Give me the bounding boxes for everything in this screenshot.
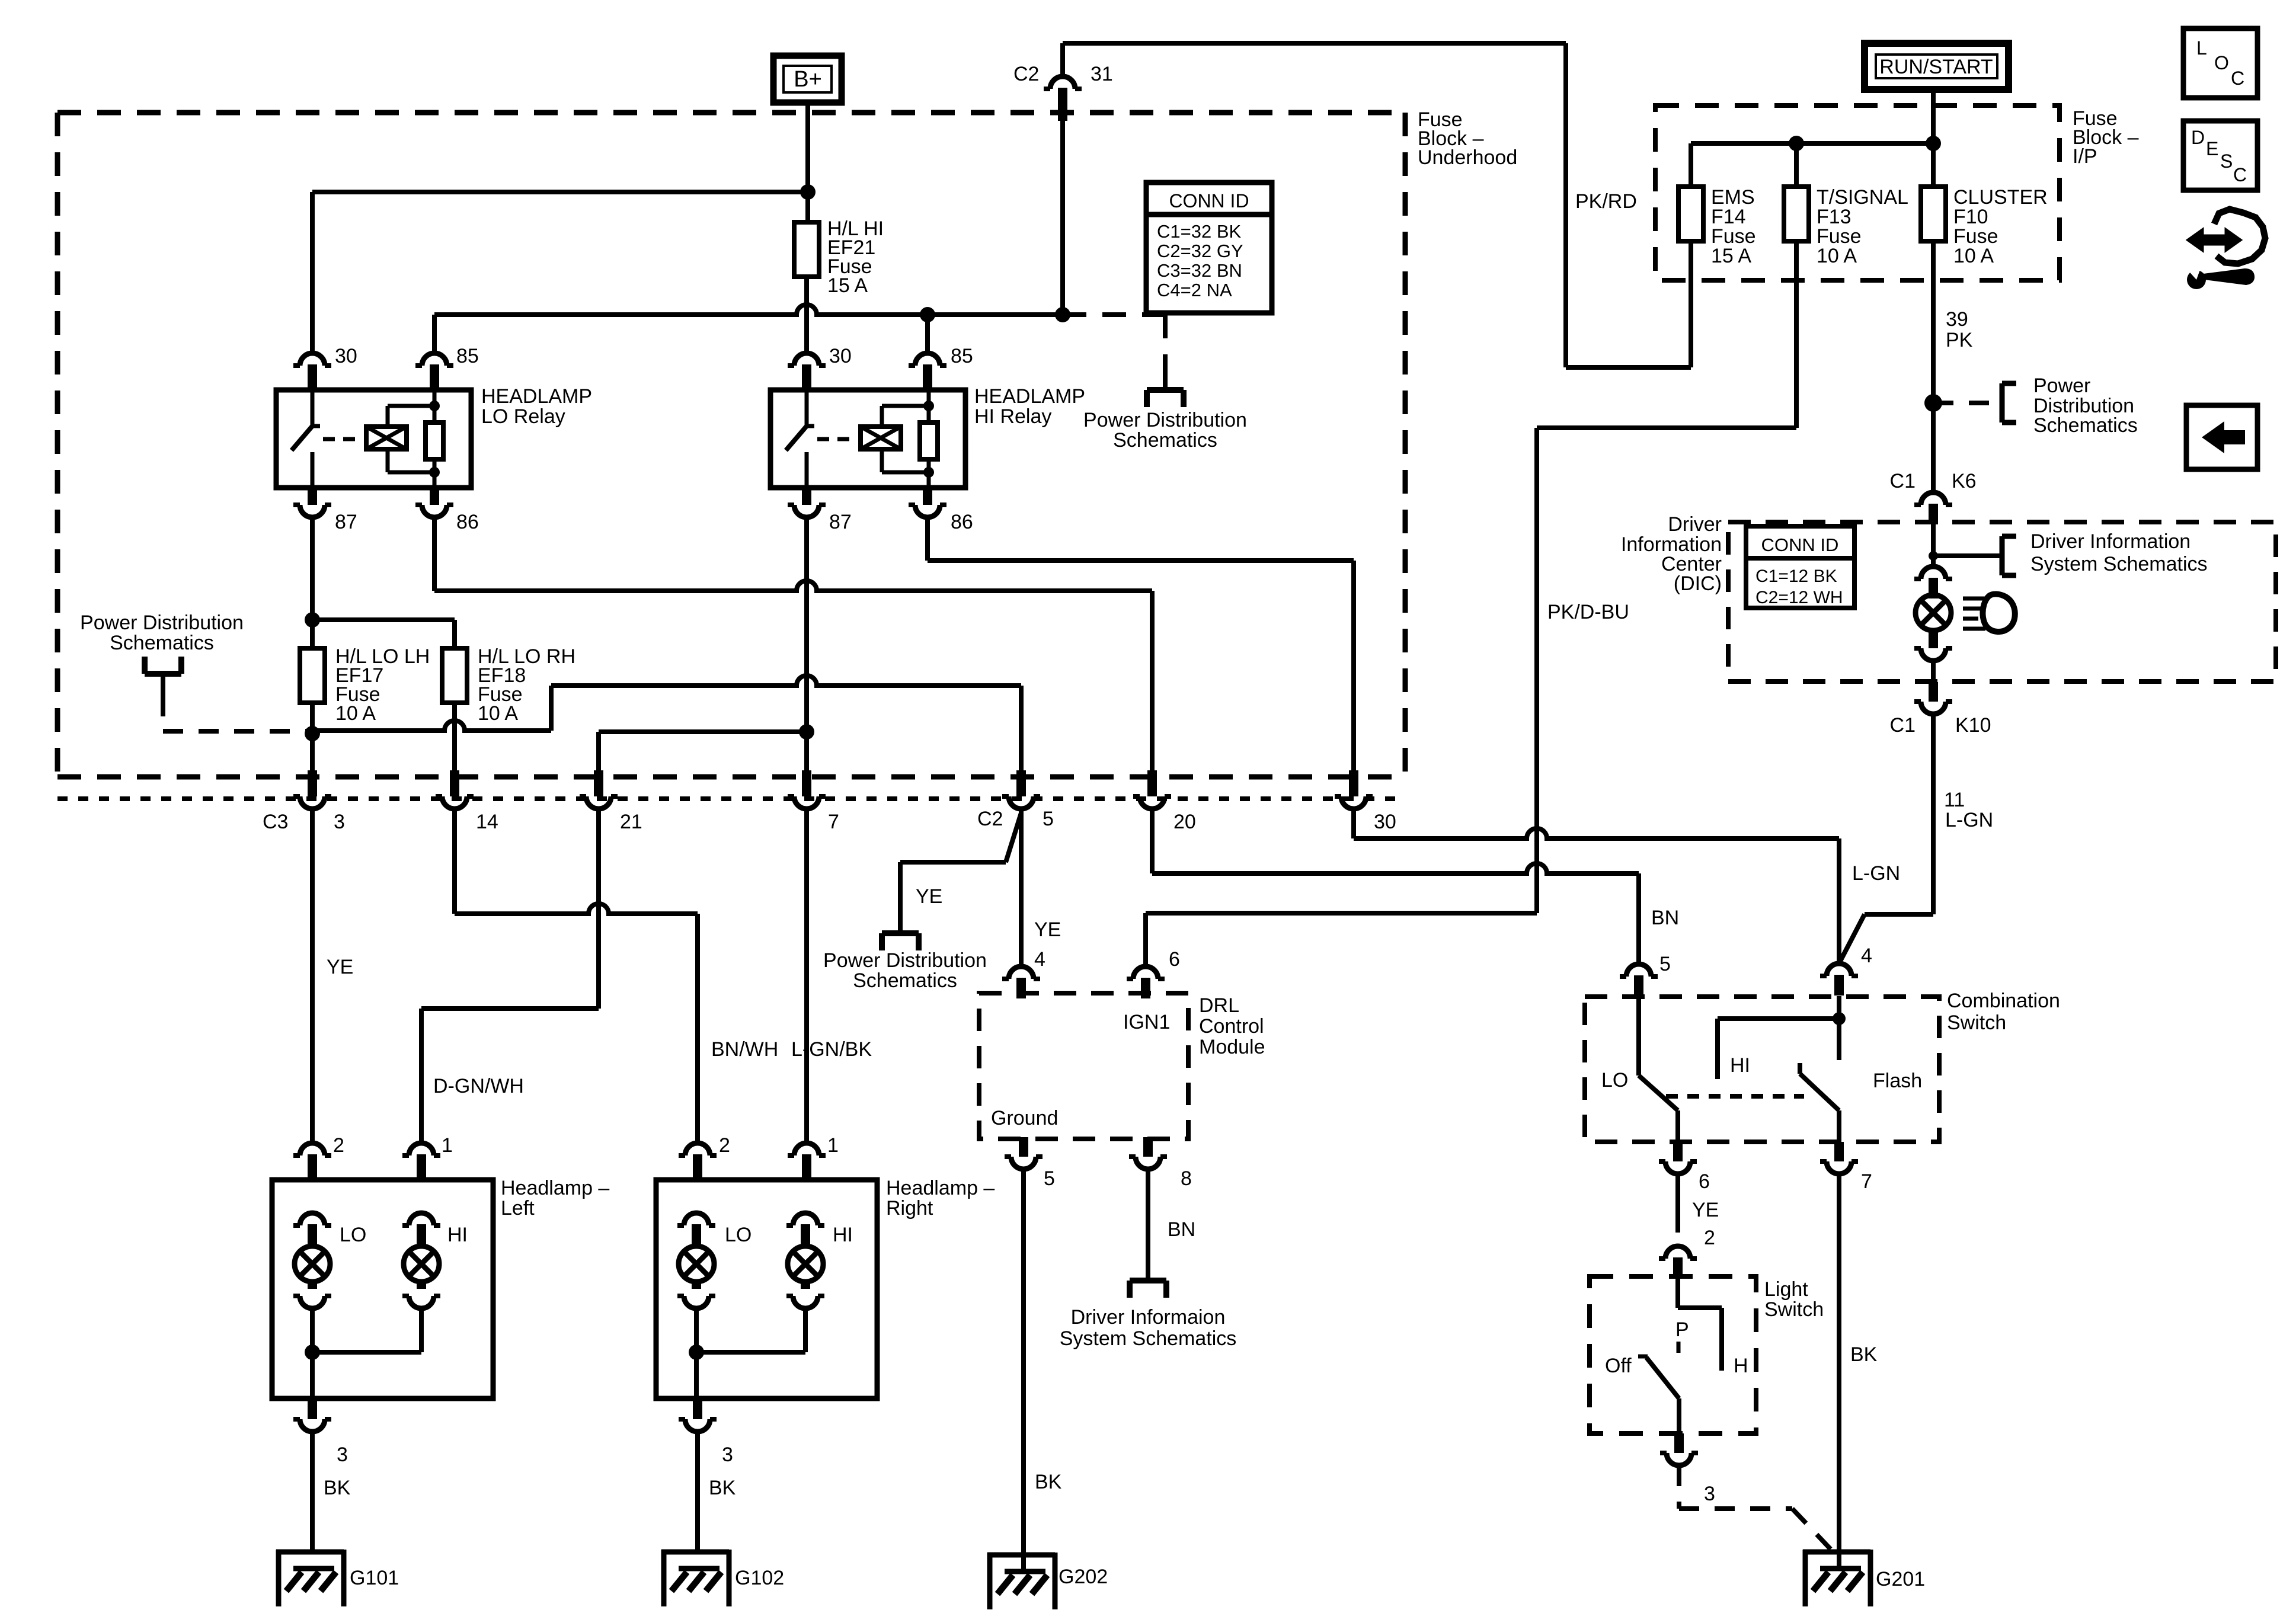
svg-text:30: 30 xyxy=(829,345,852,367)
svg-text:5: 5 xyxy=(1043,808,1054,830)
svg-text:LO Relay: LO Relay xyxy=(481,405,565,428)
svg-text:39: 39 xyxy=(1946,308,1968,331)
svg-text:2: 2 xyxy=(719,1134,730,1157)
svg-text:1: 1 xyxy=(442,1134,453,1157)
svg-text:LO: LO xyxy=(340,1224,366,1246)
svg-text:D-GN/WH: D-GN/WH xyxy=(433,1075,524,1097)
svg-text:Power Distribution: Power Distribution xyxy=(823,949,987,972)
svg-text:6: 6 xyxy=(1699,1170,1710,1193)
svg-text:3: 3 xyxy=(722,1443,733,1466)
svg-text:C4=2 NA: C4=2 NA xyxy=(1157,280,1232,300)
svg-text:Ground: Ground xyxy=(991,1107,1058,1129)
svg-text:C2: C2 xyxy=(977,808,1003,830)
svg-text:DRL: DRL xyxy=(1199,994,1239,1017)
svg-text:85: 85 xyxy=(456,345,479,367)
svg-text:Schematics: Schematics xyxy=(110,632,214,654)
svg-text:Module: Module xyxy=(1199,1036,1265,1058)
svg-text:7: 7 xyxy=(828,811,839,833)
svg-text:K6: K6 xyxy=(1952,470,1977,492)
svg-text:C2=32 GY: C2=32 GY xyxy=(1157,241,1243,261)
svg-text:15 A: 15 A xyxy=(1711,245,1751,267)
svg-text:BN/WH: BN/WH xyxy=(711,1038,778,1061)
svg-text:L-GN: L-GN xyxy=(1945,809,1993,831)
svg-text:Schematics: Schematics xyxy=(1113,429,1217,452)
svg-text:5: 5 xyxy=(1044,1167,1055,1190)
svg-text:IGN1: IGN1 xyxy=(1123,1011,1170,1033)
svg-text:Power Distribution: Power Distribution xyxy=(80,612,244,634)
svg-text:BN: BN xyxy=(1168,1218,1195,1241)
svg-text:31: 31 xyxy=(1091,63,1113,85)
svg-text:HEADLAMP: HEADLAMP xyxy=(974,385,1085,408)
svg-text:System Schematics: System Schematics xyxy=(2030,553,2208,575)
svg-text:Driver: Driver xyxy=(1668,513,1722,536)
svg-text:HI: HI xyxy=(447,1224,468,1246)
svg-text:15 A: 15 A xyxy=(827,274,868,297)
svg-text:YE: YE xyxy=(327,956,353,978)
svg-text:20: 20 xyxy=(1173,811,1196,833)
svg-text:Combination: Combination xyxy=(1947,990,2060,1012)
svg-text:S: S xyxy=(2220,151,2233,172)
svg-text:Headlamp –: Headlamp – xyxy=(501,1177,609,1199)
svg-text:G102: G102 xyxy=(735,1567,784,1589)
svg-text:10 A: 10 A xyxy=(1953,245,1994,267)
svg-text:(DIC): (DIC) xyxy=(1674,572,1722,595)
svg-text:B+: B+ xyxy=(794,67,822,92)
svg-text:Headlamp –: Headlamp – xyxy=(886,1177,994,1199)
svg-text:C1=12 BK: C1=12 BK xyxy=(1755,566,1837,586)
svg-text:P: P xyxy=(1675,1318,1689,1341)
svg-text:1: 1 xyxy=(827,1134,839,1157)
svg-text:H: H xyxy=(1734,1355,1748,1377)
svg-text:21: 21 xyxy=(620,811,642,833)
svg-text:Left: Left xyxy=(501,1197,535,1219)
svg-text:C3: C3 xyxy=(263,811,288,833)
svg-text:HI: HI xyxy=(833,1224,853,1246)
svg-text:G101: G101 xyxy=(350,1567,399,1589)
svg-text:Switch: Switch xyxy=(1947,1012,2006,1034)
svg-text:G201: G201 xyxy=(1876,1568,1925,1590)
svg-text:10 A: 10 A xyxy=(1817,245,1857,267)
svg-text:30: 30 xyxy=(1374,811,1396,833)
svg-text:CONN ID: CONN ID xyxy=(1169,190,1249,212)
svg-text:C2=12 WH: C2=12 WH xyxy=(1755,588,1843,607)
svg-text:Schematics: Schematics xyxy=(2033,414,2138,437)
svg-text:L-GN/BK: L-GN/BK xyxy=(791,1038,872,1061)
svg-text:D: D xyxy=(2191,127,2205,148)
svg-text:6: 6 xyxy=(1169,948,1180,971)
svg-text:BK: BK xyxy=(1850,1343,1878,1366)
svg-text:Switch: Switch xyxy=(1764,1298,1824,1321)
svg-text:Driver Informaion: Driver Informaion xyxy=(1071,1306,1226,1329)
svg-text:Light: Light xyxy=(1764,1278,1808,1301)
svg-text:YE: YE xyxy=(1692,1199,1719,1221)
svg-text:L: L xyxy=(2196,37,2207,59)
svg-text:C1: C1 xyxy=(1890,714,1916,737)
svg-text:4: 4 xyxy=(1861,945,1872,967)
svg-text:RUN/START: RUN/START xyxy=(1879,56,1993,78)
svg-text:30: 30 xyxy=(335,345,357,367)
svg-text:Right: Right xyxy=(886,1197,933,1219)
svg-text:HEADLAMP: HEADLAMP xyxy=(481,385,592,408)
svg-text:10 A: 10 A xyxy=(478,702,518,725)
svg-text:Schematics: Schematics xyxy=(853,969,957,992)
svg-text:YE: YE xyxy=(916,885,942,908)
svg-text:HI Relay: HI Relay xyxy=(974,405,1051,428)
svg-text:Off: Off xyxy=(1605,1355,1632,1377)
svg-text:C: C xyxy=(2233,164,2247,185)
svg-text:C1: C1 xyxy=(1890,470,1916,492)
svg-text:11: 11 xyxy=(1944,789,1965,811)
svg-text:5: 5 xyxy=(1659,953,1671,975)
svg-text:85: 85 xyxy=(951,345,973,367)
svg-text:I/P: I/P xyxy=(2073,145,2097,168)
svg-text:BK: BK xyxy=(1035,1471,1062,1493)
svg-text:BN: BN xyxy=(1651,907,1679,929)
svg-text:LO: LO xyxy=(725,1224,752,1246)
svg-text:C: C xyxy=(2231,68,2244,89)
svg-text:O: O xyxy=(2214,52,2229,73)
svg-text:Power: Power xyxy=(2033,375,2090,397)
svg-text:Power Distribution: Power Distribution xyxy=(1083,409,1247,431)
svg-text:87: 87 xyxy=(829,511,852,533)
svg-text:86: 86 xyxy=(951,511,973,533)
svg-text:4: 4 xyxy=(1034,948,1045,971)
svg-text:BK: BK xyxy=(709,1477,736,1499)
svg-text:3: 3 xyxy=(337,1443,348,1466)
svg-text:PK/RD: PK/RD xyxy=(1575,190,1637,213)
svg-text:10 A: 10 A xyxy=(335,702,376,725)
svg-text:HI: HI xyxy=(1730,1054,1750,1077)
svg-text:8: 8 xyxy=(1181,1167,1192,1190)
svg-text:G202: G202 xyxy=(1059,1566,1108,1588)
svg-text:BK: BK xyxy=(324,1477,351,1499)
svg-text:C2: C2 xyxy=(1013,63,1039,85)
svg-text:LO: LO xyxy=(1601,1069,1628,1092)
svg-text:Control: Control xyxy=(1199,1015,1264,1038)
svg-text:2: 2 xyxy=(1704,1227,1715,1249)
svg-text:L-GN: L-GN xyxy=(1852,862,1900,885)
svg-text:3: 3 xyxy=(334,811,345,833)
svg-text:Driver Information: Driver Information xyxy=(2030,530,2191,553)
svg-text:14: 14 xyxy=(476,811,498,833)
svg-text:3: 3 xyxy=(1704,1483,1715,1505)
svg-text:86: 86 xyxy=(456,511,479,533)
svg-text:2: 2 xyxy=(333,1134,344,1157)
svg-text:C1=32 BK: C1=32 BK xyxy=(1157,221,1242,242)
svg-text:PK/D-BU: PK/D-BU xyxy=(1547,601,1629,623)
svg-text:PK: PK xyxy=(1946,329,1973,351)
svg-text:YE: YE xyxy=(1034,918,1061,941)
svg-text:System Schematics: System Schematics xyxy=(1060,1327,1237,1350)
svg-text:7: 7 xyxy=(1861,1170,1872,1193)
svg-text:87: 87 xyxy=(335,511,357,533)
svg-text:CONN ID: CONN ID xyxy=(1761,534,1839,555)
svg-text:Underhood: Underhood xyxy=(1418,146,1517,169)
svg-text:K10: K10 xyxy=(1955,714,1991,737)
svg-text:C3=32 BN: C3=32 BN xyxy=(1157,260,1242,281)
svg-text:E: E xyxy=(2206,138,2218,159)
svg-text:Flash: Flash xyxy=(1873,1070,1922,1092)
